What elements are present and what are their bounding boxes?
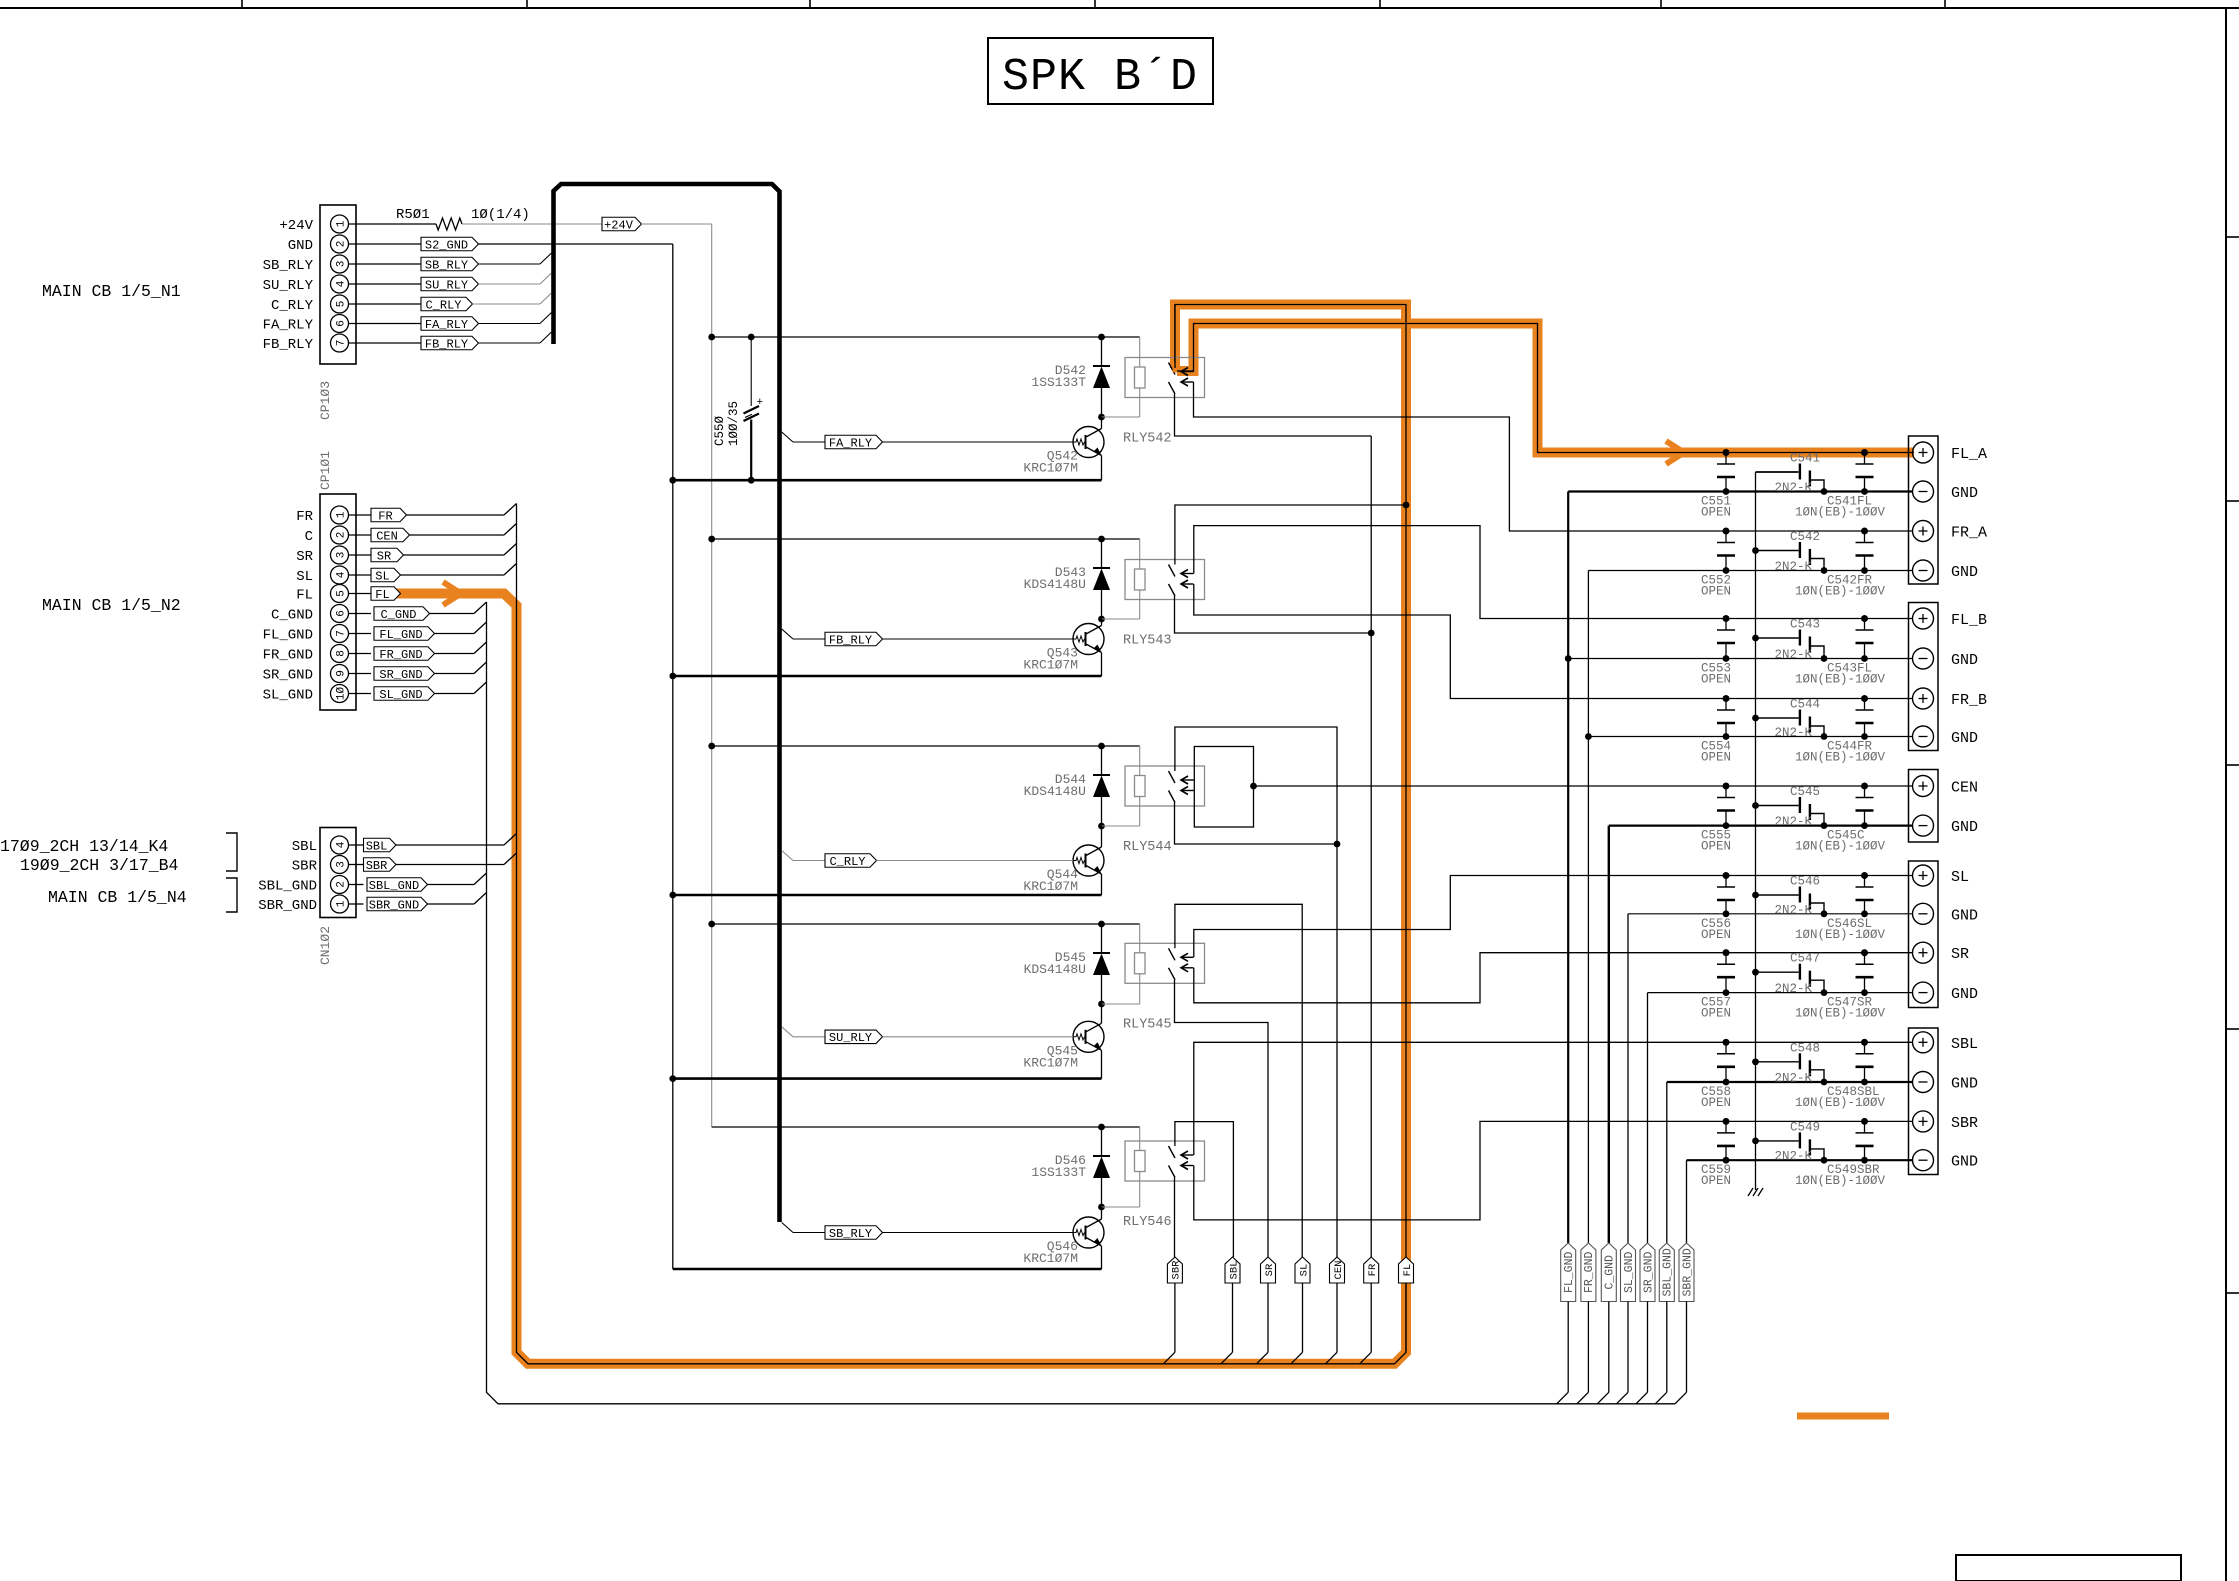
svg-text:RLY543: RLY543 <box>1123 634 1172 649</box>
capacitor C548 2N2-K <box>1756 1061 1799 1063</box>
relay RLY542 coil <box>1135 367 1146 388</box>
wire RLY542 output to FL_A <box>1177 370 1194 372</box>
terminal FL_A GND minus <box>1913 481 1934 502</box>
wire SU_RLY into control bus <box>479 283 541 285</box>
wire FL_GND vertical <box>1567 492 1569 1244</box>
connector CP103 body <box>320 205 356 364</box>
svg-text:OPEN: OPEN <box>1701 1096 1731 1110</box>
terminal SR plus <box>1913 942 1934 963</box>
wire SR into signal trunk <box>404 554 505 556</box>
svg-text:SBL_GND: SBL_GND <box>369 879 419 893</box>
svg-text:SR: SR <box>1951 946 1969 963</box>
wire RLY543 arrow2 to FR_B <box>1194 584 1913 699</box>
wire FA_RLY into control bus <box>479 323 541 325</box>
wire CEN into signal trunk <box>410 534 505 536</box>
terminal SL GND minus <box>1913 903 1934 924</box>
wire FA_RLY to Q542 base <box>883 441 1074 443</box>
svg-text:1SS133T: 1SS133T <box>1031 1165 1086 1180</box>
svg-text:1: 1 <box>336 900 348 907</box>
svg-text:4: 4 <box>336 280 348 287</box>
svg-text:SL_GND: SL_GND <box>379 688 422 702</box>
wire +24V rail tier 5 <box>712 1126 1140 1128</box>
svg-text:2: 2 <box>336 241 348 248</box>
bottom net flag C_GND <box>1601 1243 1616 1302</box>
svg-text:SBR: SBR <box>1171 1260 1183 1280</box>
svg-text:CEN: CEN <box>1951 780 1978 797</box>
terminal SL plus <box>1913 865 1934 886</box>
net flag FA_RLY at CP103 <box>349 323 422 325</box>
svg-text:SBL: SBL <box>292 839 317 855</box>
net flag SBL at CN102 <box>364 838 397 852</box>
capacitor C557 OPEN <box>1725 953 1727 965</box>
relay RLY544 contacts <box>1169 771 1176 783</box>
svg-text:3: 3 <box>336 861 348 868</box>
svg-text:GND: GND <box>1951 1154 1978 1171</box>
svg-text:CEN: CEN <box>1333 1261 1345 1280</box>
wire R501 to +24V flag <box>462 223 602 225</box>
svg-text:2N2-K: 2N2-K <box>1775 1150 1813 1164</box>
svg-text:SBR_GND: SBR_GND <box>369 898 419 912</box>
wire RLY546 arrow pin to SBL terminal <box>1194 1042 1913 1155</box>
wire RLY544 top contact to CEN net <box>1175 727 1337 844</box>
svg-text:SBL: SBL <box>366 839 388 853</box>
wire FB_RLY to Q543 base <box>883 638 1074 640</box>
svg-text:FR: FR <box>378 509 392 523</box>
capacitor C543 2N2-K <box>1756 637 1799 639</box>
svg-text:GND: GND <box>1951 1076 1978 1093</box>
capacitor C543FL 10N(EB)-100V <box>1864 619 1866 631</box>
wire +24V vertical rail <box>711 224 713 1127</box>
capacitor C549SBR 10N(EB)-100V <box>1864 1121 1866 1133</box>
svg-text:OPEN: OPEN <box>1701 585 1731 599</box>
CP103 pin 4 SU_RLY <box>331 275 349 293</box>
wire ground rail tier 2 <box>673 675 1102 678</box>
svg-text:GND: GND <box>1951 819 1978 836</box>
wire diode to relay coil tier 4 <box>1102 1003 1140 1005</box>
capacitor C552 OPEN <box>1725 531 1727 543</box>
svg-text:KRC1Ø7M: KRC1Ø7M <box>1023 658 1078 673</box>
transistor Q545 KRC107M <box>1073 1021 1104 1052</box>
wire RLY542 top contact from FL <box>1174 305 1176 363</box>
svg-text:C543: C543 <box>1790 618 1820 632</box>
wire +24V rail tier 1 <box>712 336 1140 338</box>
svg-text:2N2-K: 2N2-K <box>1775 815 1813 829</box>
capacitor C554 OPEN <box>1725 699 1727 711</box>
svg-text:FL: FL <box>1402 1264 1414 1277</box>
net flag SL at CP101 <box>371 568 401 582</box>
terminal FL_A plus <box>1913 442 1934 463</box>
net flag CEN at CP101 <box>371 528 410 542</box>
svg-text:3: 3 <box>336 552 348 559</box>
wire C_GND into ground trunk <box>430 613 475 615</box>
diode D545 KDS4148U <box>1101 924 1103 953</box>
transistor Q543 KRC107M <box>1073 624 1104 655</box>
wire SR_GND vertical <box>1647 993 1649 1243</box>
svg-text:C545: C545 <box>1790 785 1820 799</box>
bracket for 2CH rows <box>226 833 237 871</box>
svg-text:SBR: SBR <box>292 859 318 875</box>
page border right line <box>2225 8 2227 1581</box>
wire RLY543 top contact to FL branch <box>1175 505 1406 565</box>
svg-text:19Ø9_2CH 3/17_B4: 19Ø9_2CH 3/17_B4 <box>20 856 179 875</box>
svg-text:SB_RLY: SB_RLY <box>425 258 468 272</box>
bottom net flag SBL_GND <box>1659 1243 1674 1302</box>
svg-text:SU_RLY: SU_RLY <box>829 1031 872 1045</box>
wire ground rail tier 4 <box>673 1077 1102 1080</box>
svg-text:1SS133T: 1SS133T <box>1031 375 1086 390</box>
svg-text:FL: FL <box>296 588 313 604</box>
svg-text:SU_RLY: SU_RLY <box>263 278 314 294</box>
terminal SBL GND minus <box>1913 1072 1934 1093</box>
svg-text:SL: SL <box>1298 1264 1310 1277</box>
wire ground rail tier 3 <box>673 894 1102 897</box>
wire FR_GND into ground trunk <box>435 653 475 655</box>
svg-text:GND: GND <box>1951 986 1978 1003</box>
terminal group box CEN <box>1909 770 1939 843</box>
net flag SR_GND at CP101 <box>374 667 435 681</box>
net flag FR at CP101 <box>371 508 407 522</box>
CP101 pin 8 FR_GND <box>331 645 349 663</box>
wire CEN vertical to bottom flag <box>1336 844 1338 1257</box>
svg-text:KRC1Ø7M: KRC1Ø7M <box>1023 461 1078 476</box>
svg-text:KDS4148U: KDS4148U <box>1024 784 1086 799</box>
svg-text:OPEN: OPEN <box>1701 840 1731 854</box>
wire RLY546 common to SBR flag <box>1174 1178 1176 1258</box>
bottom net flag SBR_GND <box>1679 1243 1694 1302</box>
bottom net flag SR_GND <box>1640 1243 1655 1302</box>
wire FR_A GND row <box>1588 570 1912 572</box>
svg-text:RLY545: RLY545 <box>1123 1017 1172 1032</box>
wire SB_RLY to Q546 base <box>883 1232 1074 1234</box>
CP101 pin 6 C_GND <box>331 605 349 623</box>
svg-text:2: 2 <box>336 532 348 539</box>
capacitor C544FR 10N(EB)-100V <box>1864 699 1866 711</box>
bottom net flag SBR <box>1167 1257 1182 1283</box>
diode D543 KDS4148U <box>1101 539 1103 568</box>
wire RLY545 arrow pin to SL terminal <box>1194 876 1913 958</box>
bottom net flag FL orange <box>1399 1257 1414 1283</box>
capacitor C541 2N2-K <box>1756 471 1799 473</box>
CN102 pin 4 SBL <box>331 836 349 854</box>
capacitor C556 OPEN <box>1725 876 1727 888</box>
svg-text:SBL: SBL <box>1951 1036 1978 1053</box>
svg-text:1ØN(EB)-1ØØV: 1ØN(EB)-1ØØV <box>1795 928 1886 942</box>
CN102 pin 1 SBR_GND <box>331 895 349 913</box>
net flag SL_GND at CP101 <box>374 687 435 701</box>
terminal FR_B plus <box>1913 688 1934 709</box>
svg-text:2N2-K: 2N2-K <box>1775 1072 1813 1086</box>
wire SBL GND row <box>1667 1081 1913 1083</box>
svg-text:1: 1 <box>336 511 348 518</box>
svg-text:SBR_GND: SBR_GND <box>1681 1248 1694 1296</box>
wire SR GND row <box>1648 992 1913 994</box>
CP101 pin 4 SL <box>331 566 349 584</box>
svg-text:OPEN: OPEN <box>1701 751 1731 765</box>
capacitor C545C 10N(EB)-100V <box>1864 786 1866 798</box>
wire FR_B GND row <box>1588 736 1912 738</box>
svg-text:C_RLY: C_RLY <box>271 298 314 314</box>
svg-text:7: 7 <box>336 340 348 347</box>
CN102 pin 3 SBR <box>331 856 349 874</box>
svg-text:C541: C541 <box>1790 452 1820 466</box>
svg-text:1ØN(EB)-1ØØV: 1ØN(EB)-1ØØV <box>1795 1174 1886 1188</box>
CP103 pin 1 +24V <box>331 215 349 233</box>
svg-text:4: 4 <box>336 571 348 578</box>
net flag SB_RLY tier 5 <box>782 1223 793 1233</box>
diode D544 KDS4148U <box>1101 746 1103 775</box>
CP101 pin 7 FL_GND <box>331 625 349 643</box>
terminal group box FL_A FR_A <box>1909 436 1939 584</box>
svg-text:FR_B: FR_B <box>1951 692 1987 709</box>
svg-text:C542: C542 <box>1790 530 1820 544</box>
capacitor C541FL 10N(EB)-100V <box>1864 453 1866 465</box>
svg-text:FB_RLY: FB_RLY <box>829 633 872 647</box>
capacitor C553 OPEN <box>1725 619 1727 631</box>
terminal SBR GND minus <box>1913 1150 1934 1171</box>
wire +24V flag to +24V rail <box>642 223 712 225</box>
svg-text:1ØN(EB)-1ØØV: 1ØN(EB)-1ØØV <box>1795 506 1886 520</box>
relay RLY542 box <box>1125 358 1205 398</box>
svg-text:S2_GND: S2_GND <box>425 238 468 252</box>
wire SBR GND row <box>1687 1159 1913 1161</box>
svg-text:SR: SR <box>1264 1263 1276 1276</box>
terminal group box SL SR <box>1909 861 1939 1008</box>
wire RLY543 common to FR net <box>1175 596 1372 633</box>
svg-text:MAIN CB 1/5_N1: MAIN CB 1/5_N1 <box>42 282 181 301</box>
svg-text:SB_RLY: SB_RLY <box>263 258 314 274</box>
svg-text:FR_A: FR_A <box>1951 525 1987 542</box>
net flag C_GND at CP101 <box>374 607 430 621</box>
wire FR vertical to bottom flag <box>1370 436 1372 1257</box>
svg-text:SL: SL <box>296 569 313 585</box>
svg-text:7: 7 <box>336 630 348 637</box>
bottom net flag CEN <box>1330 1257 1345 1283</box>
net flag FB_RLY tier 2 <box>782 629 793 639</box>
svg-text:SBL: SBL <box>1228 1261 1240 1280</box>
svg-text:1ØN(EB)-1ØØV: 1ØN(EB)-1ØØV <box>1795 673 1886 687</box>
wire RLY542 arrow2 to FR_A <box>1194 382 1913 531</box>
relay RLY546 contacts <box>1169 1146 1176 1158</box>
svg-text:SL_GND: SL_GND <box>263 688 313 704</box>
svg-text:OPEN: OPEN <box>1701 506 1731 520</box>
svg-text:SBR: SBR <box>366 859 388 873</box>
capacitor C558 OPEN <box>1725 1042 1727 1054</box>
diode D542 1SS133T <box>1101 337 1103 366</box>
bottom net flag FR_GND <box>1581 1243 1596 1302</box>
svg-text:FL_GND: FL_GND <box>1563 1252 1576 1294</box>
net flag SU_RLY at CP103 <box>349 283 422 285</box>
wire +24V rail tier 3 <box>712 745 1140 747</box>
svg-text:6: 6 <box>336 610 348 617</box>
relay RLY545 coil <box>1135 953 1146 974</box>
wire FL_GND into ground trunk <box>435 633 475 635</box>
svg-text:FL_B: FL_B <box>1951 612 1987 629</box>
svg-text:5: 5 <box>336 590 348 597</box>
wire RLY544 loop to CEN terminal <box>1254 785 1913 787</box>
svg-text:FL: FL <box>375 588 389 602</box>
wire FB_RLY into control bus <box>479 342 541 344</box>
revision box bottom right <box>1956 1555 2181 1581</box>
page border top tick marks <box>241 0 243 8</box>
wire SL_GND into ground trunk <box>435 693 475 695</box>
wire ground rail tier 5 <box>673 1268 1102 1271</box>
wire S2_GND to ground trunk <box>479 243 673 245</box>
net flag C_RLY at CP103 <box>349 303 422 305</box>
bracket for MAIN CB N4 rows <box>226 878 237 912</box>
svg-text:1ØN(EB)-1ØØV: 1ØN(EB)-1ØØV <box>1795 1007 1886 1021</box>
mid capacitor bus vertical <box>1756 471 1798 473</box>
relay RLY543 contacts <box>1169 565 1176 577</box>
svg-text:OPEN: OPEN <box>1701 928 1731 942</box>
svg-text:C55Ø: C55Ø <box>713 415 727 446</box>
svg-text:8: 8 <box>336 650 348 657</box>
CP101 pin 9 SR_GND <box>331 665 349 683</box>
svg-text:RLY542: RLY542 <box>1123 432 1172 447</box>
terminal FL_B GND minus <box>1913 648 1934 669</box>
svg-text:OPEN: OPEN <box>1701 673 1731 687</box>
wire diode to relay coil tier 2 <box>1102 618 1140 620</box>
svg-text:C546: C546 <box>1790 875 1820 889</box>
capacitor C547 2N2-K <box>1756 971 1799 973</box>
net flag S2_GND <box>349 243 422 245</box>
terminal SR GND minus <box>1913 982 1934 1003</box>
transistor Q544 KRC107M <box>1073 845 1104 876</box>
orange highlighted FL_A output path <box>1177 324 1914 453</box>
wire diode to relay coil tier 1 <box>1102 416 1140 418</box>
net flag SU_RLY tier 4 <box>782 1027 793 1037</box>
wire RLY544 contact loop <box>1194 747 1253 828</box>
chassis ground symbol <box>1748 1188 1753 1196</box>
wire FL_A GND row <box>1568 490 1912 492</box>
relay RLY546 box <box>1125 1141 1205 1181</box>
svg-text:FR_GND: FR_GND <box>263 648 313 664</box>
svg-text:FR: FR <box>296 509 313 525</box>
wire diode to relay coil tier 5 <box>1102 1206 1140 1208</box>
svg-text:2N2-K: 2N2-K <box>1775 726 1813 740</box>
svg-text:GND: GND <box>1951 652 1978 669</box>
terminal SBR plus <box>1913 1111 1934 1132</box>
wire SU_RLY to Q545 base <box>883 1036 1074 1038</box>
svg-text:FL_GND: FL_GND <box>379 628 422 642</box>
CP103 pin 3 SB_RLY <box>331 255 349 273</box>
relay RLY546 coil <box>1135 1151 1146 1172</box>
wire SR_GND into ground trunk <box>435 673 475 675</box>
terminal FR_B GND minus <box>1913 726 1934 747</box>
wire FR_GND vertical <box>1587 571 1589 1244</box>
svg-text:SBL_GND: SBL_GND <box>1662 1248 1675 1296</box>
wire RLY546 arrow2 to SBR terminal <box>1194 1121 1913 1220</box>
bottom net flag SR <box>1261 1257 1276 1283</box>
svg-text:CN1Ø2: CN1Ø2 <box>318 926 333 965</box>
svg-text:SR: SR <box>377 549 391 563</box>
capacitor C547SR 10N(EB)-100V <box>1864 953 1866 965</box>
CP103 pin 5 C_RLY <box>331 295 349 313</box>
svg-text:FR_GND: FR_GND <box>1583 1252 1596 1294</box>
terminal group box SBL SBR <box>1909 1028 1939 1175</box>
capacitor C551 OPEN <box>1725 453 1727 465</box>
net flag +24V <box>602 217 642 231</box>
svg-text:SR_GND: SR_GND <box>263 668 313 684</box>
wire FR_A plus row dots <box>1723 449 1730 456</box>
svg-text:FB_RLY: FB_RLY <box>263 337 314 353</box>
svg-text:GND: GND <box>1951 485 1978 502</box>
svg-text:FL_GND: FL_GND <box>263 628 313 644</box>
svg-text:C547: C547 <box>1790 952 1820 966</box>
svg-text:1Ø(1/4): 1Ø(1/4) <box>471 207 530 223</box>
svg-text:9: 9 <box>336 670 348 677</box>
CP103 pin 7 FB_RLY <box>331 334 349 352</box>
wire +24V rail tier 2 <box>712 538 1140 540</box>
wire RLY546 top contact to SBL net <box>1175 1122 1234 1257</box>
wire +24V rail tier 4 <box>712 923 1140 925</box>
svg-text:R5Ø1: R5Ø1 <box>396 207 430 223</box>
relay RLY544 box <box>1125 766 1205 806</box>
svg-text:KDS4148U: KDS4148U <box>1024 577 1086 592</box>
transistor Q546 KRC107M <box>1073 1217 1104 1248</box>
wire CEN GND row <box>1609 824 1913 826</box>
svg-text:KRC1Ø7M: KRC1Ø7M <box>1023 879 1078 894</box>
svg-text:C_RLY: C_RLY <box>829 855 865 869</box>
terminal group box FL_B FR_B <box>1909 603 1939 751</box>
wire RLY545 arrow2 to SR terminal <box>1194 953 1913 1003</box>
wire S2_GND vertical rail <box>672 244 674 1269</box>
capacitor C559 OPEN <box>1725 1121 1727 1133</box>
svg-text:FR: FR <box>1367 1263 1379 1276</box>
svg-text:SBL_GND: SBL_GND <box>258 879 317 895</box>
svg-text:1Ø: 1Ø <box>336 687 348 701</box>
net flag FL at CP101 <box>371 587 401 601</box>
transistor Q542 KRC107M <box>1073 427 1104 458</box>
wire ground rail tier 1 <box>673 479 1102 482</box>
svg-text:OPEN: OPEN <box>1701 1174 1731 1188</box>
svg-text:FL_A: FL_A <box>1951 446 1987 463</box>
wire C_RLY to Q544 base <box>877 860 1074 862</box>
capacitor C542 2N2-K <box>1756 550 1799 552</box>
CP103 pin 2 GND <box>331 235 349 253</box>
net flag FA_RLY tier 1 <box>782 432 793 442</box>
relay RLY545 contacts <box>1169 948 1176 960</box>
wire SL into signal trunk <box>401 574 505 576</box>
bottom net flag SL_GND <box>1621 1243 1636 1302</box>
svg-text:KRC1Ø7M: KRC1Ø7M <box>1023 1055 1078 1070</box>
svg-text:MAIN CB 1/5_N4: MAIN CB 1/5_N4 <box>48 888 187 907</box>
net flag SBR_GND at CN102 <box>367 897 428 911</box>
svg-text:C544: C544 <box>1790 698 1820 712</box>
CP103 pin 6 FA_RLY <box>331 315 349 333</box>
resistor R501 <box>349 223 437 225</box>
relay RLY543 box <box>1125 560 1205 600</box>
diode D546 1SS133T <box>1101 1127 1103 1156</box>
capacitor C546 2N2-K <box>1756 894 1799 896</box>
svg-text:+24V: +24V <box>279 218 313 234</box>
svg-text:SB_RLY: SB_RLY <box>829 1227 872 1241</box>
CP101 pin 3 SR <box>331 546 349 564</box>
terminal CEN plus <box>1913 776 1934 797</box>
svg-text:OPEN: OPEN <box>1701 1007 1731 1021</box>
svg-text:C: C <box>305 529 313 545</box>
relay RLY542 contacts <box>1169 363 1176 375</box>
wire RLY544 common to CEN net <box>1175 803 1338 845</box>
net flag SBR at CN102 <box>364 858 397 872</box>
wire FL_B GND row <box>1568 658 1912 660</box>
wire C_RLY into control bus <box>473 303 541 305</box>
svg-text:SR_GND: SR_GND <box>379 668 422 682</box>
svg-text:CP1Ø3: CP1Ø3 <box>318 381 333 420</box>
svg-text:FR_GND: FR_GND <box>379 648 422 662</box>
svg-text:KDS4148U: KDS4148U <box>1024 962 1086 977</box>
svg-text:1ØN(EB)-1ØØV: 1ØN(EB)-1ØØV <box>1795 585 1886 599</box>
connector CP101 body <box>320 494 356 710</box>
